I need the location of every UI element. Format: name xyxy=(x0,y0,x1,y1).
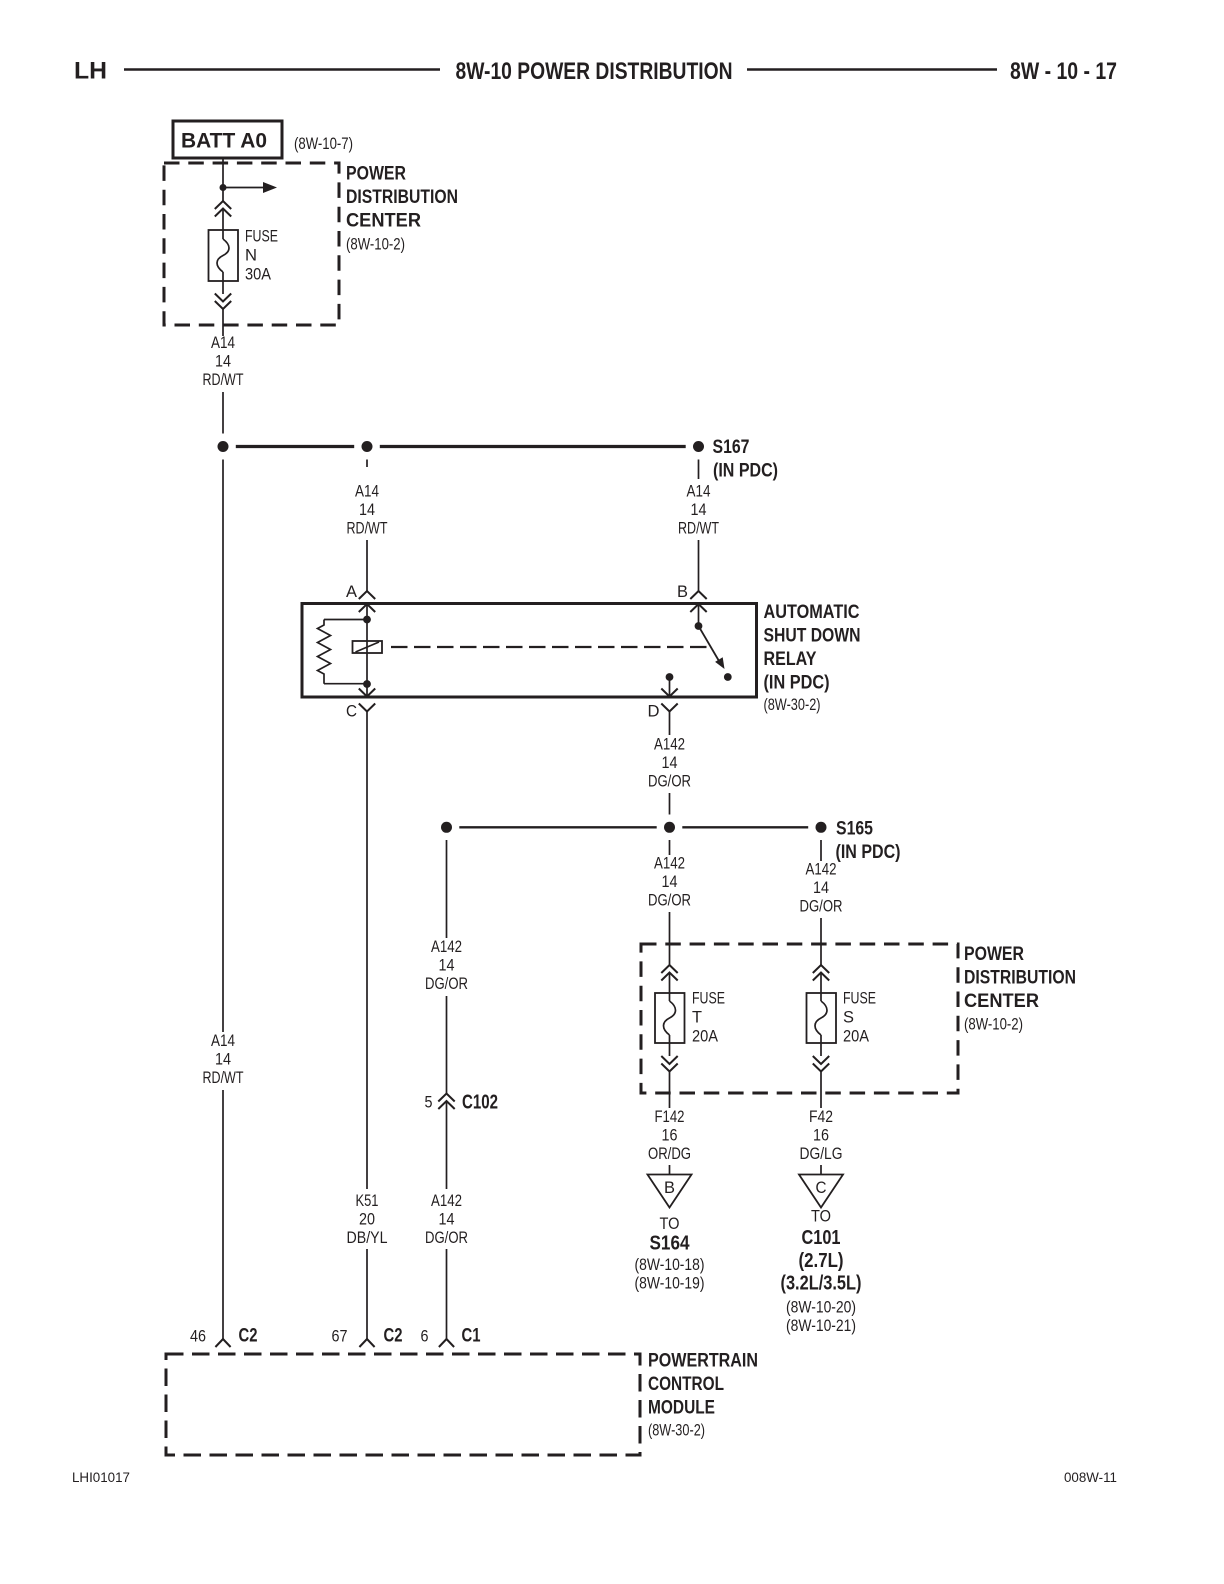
svg-text:14: 14 xyxy=(359,501,375,519)
svg-text:(8W-30-2): (8W-30-2) xyxy=(764,696,821,714)
svg-text:S167: S167 xyxy=(713,436,750,458)
pin label D xyxy=(648,703,660,721)
svg-text:TO: TO xyxy=(660,1215,680,1233)
wire stub below mid node xyxy=(366,460,368,468)
wire label K51 20 DB/YL xyxy=(347,1192,388,1247)
svg-text:AUTOMATIC: AUTOMATIC xyxy=(764,602,860,623)
svg-text:14: 14 xyxy=(813,879,829,897)
wire leaving PDC box 1 xyxy=(222,309,224,336)
pin A connector chevron xyxy=(359,591,375,599)
svg-text:(8W-30-2): (8W-30-2) xyxy=(648,1422,705,1440)
svg-text:14: 14 xyxy=(439,957,455,975)
junction node C102 branch xyxy=(441,822,452,833)
svg-text:C102: C102 xyxy=(462,1092,498,1114)
wire stub to triangle C xyxy=(820,1165,822,1174)
svg-text:14: 14 xyxy=(662,754,678,772)
svg-text:C101: C101 xyxy=(802,1227,841,1249)
power distribution center PDC box 2 (dashed) xyxy=(641,944,958,1093)
svg-text:(8W-10-2): (8W-10-2) xyxy=(346,236,405,254)
bus wire splice S165 xyxy=(459,826,808,828)
svg-text:TO: TO xyxy=(811,1208,831,1226)
pin C arrow out of relay xyxy=(359,689,375,697)
relay coil top junction xyxy=(363,616,371,624)
svg-text:POWER: POWER xyxy=(346,164,406,185)
bus wire to splice S167 xyxy=(236,445,686,448)
footer plate code LHI01017 xyxy=(72,1470,130,1485)
svg-text:C1: C1 xyxy=(462,1325,481,1347)
wire label A14 14 RD/WT (3) xyxy=(678,483,719,538)
svg-text:5: 5 xyxy=(425,1094,433,1112)
svg-text:8W-10 POWER DISTRIBUTION: 8W-10 POWER DISTRIBUTION xyxy=(456,58,733,85)
pin label B xyxy=(677,583,688,601)
header title 8W-10 POWER DISTRIBUTION xyxy=(456,58,733,85)
wire to splice S165 xyxy=(669,793,671,815)
svg-text:A142: A142 xyxy=(806,861,837,879)
pin label A xyxy=(346,583,357,601)
svg-text:20A: 20A xyxy=(843,1028,869,1046)
svg-text:(8W-10-2): (8W-10-2) xyxy=(964,1016,1023,1034)
reference (8W-10-7) xyxy=(294,135,353,153)
connector chevrons above fuse S xyxy=(813,965,829,981)
arrow branch to right xyxy=(223,182,277,193)
svg-text:FUSE: FUSE xyxy=(245,228,278,246)
svg-text:(IN PDC): (IN PDC) xyxy=(713,460,778,482)
wire from pin D xyxy=(669,718,671,735)
junction node center S165 bus xyxy=(664,822,675,833)
pin D wire and arrow xyxy=(661,677,677,697)
wire K51 to PCM pin 67 xyxy=(366,1249,368,1339)
svg-text:A142: A142 xyxy=(654,855,685,873)
footer sheet code 008W-11 xyxy=(1064,1470,1117,1485)
relay switch contact node xyxy=(724,673,732,681)
wire fuse S feed xyxy=(820,918,822,965)
svg-text:BATT A0: BATT A0 xyxy=(181,130,267,153)
fuse N 30A xyxy=(209,228,279,284)
component box BATT A0 xyxy=(173,121,282,158)
svg-text:A14: A14 xyxy=(211,334,235,352)
wire left A14 run to PCM xyxy=(222,460,224,1033)
svg-text:C2: C2 xyxy=(384,1325,403,1347)
wire stub to triangle B xyxy=(669,1165,671,1174)
power distribution center PDC box 1 (dashed) xyxy=(164,163,339,325)
header page number 8W - 10 - 17 xyxy=(1010,58,1117,85)
wire label F142 16 OR/DG xyxy=(648,1108,691,1163)
off-page connector triangle B xyxy=(648,1175,692,1208)
svg-text:(2.7L): (2.7L) xyxy=(799,1250,844,1272)
svg-text:T: T xyxy=(692,1009,702,1027)
svg-text:(8W-10-7): (8W-10-7) xyxy=(294,135,353,153)
svg-text:LHI01017: LHI01017 xyxy=(72,1470,130,1485)
junction node mid bus xyxy=(362,441,373,452)
destination TO C101 xyxy=(781,1208,862,1336)
svg-text:LH: LH xyxy=(74,58,107,85)
svg-text:B: B xyxy=(677,583,688,601)
pin label C xyxy=(346,703,357,721)
wire below fuse N xyxy=(222,272,224,294)
svg-text:F142: F142 xyxy=(655,1108,685,1126)
relay coil U1 xyxy=(353,641,383,653)
svg-text:CONTROL: CONTROL xyxy=(648,1374,724,1395)
svg-text:DG/OR: DG/OR xyxy=(800,898,843,916)
relay actuation dashed link xyxy=(391,646,708,648)
wire fuse S out of PDC xyxy=(820,1072,822,1109)
svg-text:OR/DG: OR/DG xyxy=(648,1145,691,1163)
wire fuse T out of PDC xyxy=(669,1072,671,1109)
svg-text:RD/WT: RD/WT xyxy=(203,1069,244,1087)
wire into fuse N xyxy=(222,209,224,240)
svg-text:A14: A14 xyxy=(355,483,379,501)
PCM pin 67 label C2 xyxy=(332,1325,403,1347)
junction dot in PDC xyxy=(220,184,227,191)
label POWERTRAIN CONTROL MODULE (8W-30-2) xyxy=(648,1351,758,1440)
wire below C102 xyxy=(446,1101,448,1189)
wire label A14 14 RD/WT (4) xyxy=(203,1032,244,1087)
svg-text:A142: A142 xyxy=(431,1192,462,1210)
svg-text:20A: 20A xyxy=(692,1028,718,1046)
PCM pin 6 connector xyxy=(439,1339,454,1347)
wire stub below S165 xyxy=(820,840,822,861)
svg-text:S165: S165 xyxy=(836,818,873,840)
label POWER DISTRIBUTION CENTER (8W-10-2) lower xyxy=(964,944,1076,1034)
svg-text:D: D xyxy=(648,703,660,721)
splice S167 node xyxy=(693,441,704,452)
PCM pin 67 connector xyxy=(359,1339,374,1347)
svg-text:14: 14 xyxy=(439,1211,455,1229)
svg-text:(IN PDC): (IN PDC) xyxy=(836,841,901,863)
wire A14 lower run xyxy=(222,1090,224,1339)
header rule left xyxy=(124,68,440,70)
relay box automatic shut down relay xyxy=(302,604,757,698)
wire into fuse T xyxy=(669,973,671,1002)
svg-text:A14: A14 xyxy=(687,483,711,501)
wire below fuse T xyxy=(669,1035,671,1056)
svg-text:(3.2L/3.5L): (3.2L/3.5L) xyxy=(781,1273,862,1295)
powertrain control module box (dashed) xyxy=(166,1354,640,1455)
relay coil bottom junction xyxy=(363,680,371,688)
fuse T 20A xyxy=(655,990,725,1046)
relay switch common junction xyxy=(695,622,703,630)
label S167 (IN PDC) xyxy=(713,436,779,482)
PCM pin 46 label C2 xyxy=(190,1325,258,1347)
wire label A14 14 RD/WT (1) xyxy=(203,334,244,389)
svg-text:(8W-10-18): (8W-10-18) xyxy=(635,1256,705,1274)
svg-text:46: 46 xyxy=(190,1328,206,1346)
pin A arrow into relay xyxy=(359,604,375,697)
wire BATT A0 down to junction xyxy=(222,158,224,201)
svg-text:(8W-10-21): (8W-10-21) xyxy=(786,1317,856,1335)
svg-text:(8W-10-19): (8W-10-19) xyxy=(635,1275,705,1293)
svg-text:CENTER: CENTER xyxy=(964,991,1039,1012)
wire to relay pin B xyxy=(698,540,700,591)
svg-text:RELAY: RELAY xyxy=(764,649,817,670)
wire label A142 14 DG/OR (3) xyxy=(800,861,843,916)
svg-text:67: 67 xyxy=(332,1328,348,1346)
splice S165 node xyxy=(816,822,827,833)
svg-text:14: 14 xyxy=(215,353,231,371)
pin B arrow into relay xyxy=(690,604,706,626)
relay resistor (parallel) xyxy=(318,620,368,684)
junction node at A14 column xyxy=(218,441,229,452)
svg-text:DG/OR: DG/OR xyxy=(425,975,468,993)
svg-text:RD/WT: RD/WT xyxy=(203,371,244,389)
svg-text:S: S xyxy=(843,1009,854,1027)
relay switch armature xyxy=(699,626,725,669)
PCM pin 46 connector xyxy=(215,1339,230,1347)
relay pin D junction xyxy=(666,673,674,681)
svg-text:C: C xyxy=(816,1179,827,1197)
svg-text:14: 14 xyxy=(662,873,678,891)
wire from relay pin C xyxy=(366,718,368,1189)
svg-text:DG/LG: DG/LG xyxy=(800,1145,843,1163)
svg-text:14: 14 xyxy=(691,501,707,519)
label AUTOMATIC SHUT DOWN RELAY (IN PDC) (8W-30-2) xyxy=(764,602,861,714)
svg-text:CENTER: CENTER xyxy=(346,211,421,232)
svg-text:6: 6 xyxy=(421,1328,429,1346)
wire to relay pin A xyxy=(366,540,368,591)
svg-text:(8W-10-20): (8W-10-20) xyxy=(786,1299,856,1317)
svg-text:14: 14 xyxy=(215,1051,231,1069)
wire stub below S167 xyxy=(698,460,700,480)
svg-text:16: 16 xyxy=(662,1127,678,1145)
label S165 (IN PDC) xyxy=(836,818,901,864)
svg-text:A142: A142 xyxy=(431,938,462,956)
svg-text:S164: S164 xyxy=(650,1233,691,1255)
svg-text:DISTRIBUTION: DISTRIBUTION xyxy=(964,968,1076,989)
wire to connector C102 xyxy=(446,996,448,1094)
destination TO S164 xyxy=(635,1215,705,1293)
wire label A142 14 DG/OR (2) xyxy=(648,855,691,910)
connector chevrons below fuse T xyxy=(661,1056,677,1072)
pin D connector Y xyxy=(661,704,677,719)
fuse S 20A xyxy=(807,990,877,1046)
wire label A142 14 DG/OR (4) xyxy=(425,938,468,993)
svg-text:8W - 10 - 17: 8W - 10 - 17 xyxy=(1010,58,1117,85)
svg-text:008W-11: 008W-11 xyxy=(1064,1470,1117,1485)
svg-text:K51: K51 xyxy=(356,1192,379,1210)
pin B connector chevron xyxy=(690,591,706,599)
connector chevrons below fuse N xyxy=(215,294,231,310)
svg-text:DG/OR: DG/OR xyxy=(648,773,691,791)
svg-text:C: C xyxy=(346,703,357,721)
svg-text:DB/YL: DB/YL xyxy=(347,1229,388,1247)
off-page connector triangle C xyxy=(799,1175,843,1208)
svg-text:DISTRIBUTION: DISTRIBUTION xyxy=(346,187,458,208)
header rule right xyxy=(747,68,997,70)
connector chevrons above fuse T xyxy=(661,965,677,981)
connector chevrons above fuse N xyxy=(215,201,231,217)
svg-text:(IN PDC): (IN PDC) xyxy=(764,673,830,694)
svg-text:16: 16 xyxy=(813,1127,829,1145)
svg-text:C2: C2 xyxy=(239,1325,258,1347)
svg-text:20: 20 xyxy=(359,1211,375,1229)
svg-text:RD/WT: RD/WT xyxy=(347,520,388,538)
svg-text:DG/OR: DG/OR xyxy=(648,892,691,910)
svg-text:B: B xyxy=(664,1179,675,1197)
wire label A142 14 DG/OR (1) xyxy=(648,736,691,791)
header label LH xyxy=(74,58,107,85)
svg-text:FUSE: FUSE xyxy=(843,990,876,1008)
wire stub below center node xyxy=(669,840,671,855)
svg-text:A14: A14 xyxy=(211,1032,235,1050)
wire into fuse S xyxy=(820,973,822,1002)
svg-text:MODULE: MODULE xyxy=(648,1398,715,1419)
svg-text:FUSE: FUSE xyxy=(692,990,725,1008)
svg-text:RD/WT: RD/WT xyxy=(678,520,719,538)
wire fuse T feed xyxy=(669,912,671,965)
connector chevrons below fuse S xyxy=(813,1056,829,1072)
label POWER DISTRIBUTION CENTER (8W-10-2) xyxy=(346,164,458,254)
wire A14 to bus xyxy=(222,392,224,434)
svg-text:N: N xyxy=(245,247,257,265)
svg-text:DG/OR: DG/OR xyxy=(425,1229,468,1247)
svg-text:POWER: POWER xyxy=(964,944,1024,965)
pin C connector Y xyxy=(359,704,375,719)
wire to PCM pin 6 xyxy=(446,1249,448,1339)
wire label A142 14 DG/OR (5) xyxy=(425,1192,468,1247)
svg-text:A142: A142 xyxy=(654,736,685,754)
wire below fuse S xyxy=(820,1035,822,1056)
wire label A14 14 RD/WT (2) xyxy=(347,483,388,538)
PCM pin 6 label C1 xyxy=(421,1325,481,1347)
svg-text:SHUT DOWN: SHUT DOWN xyxy=(764,626,861,647)
svg-text:30A: 30A xyxy=(245,266,271,284)
svg-text:A: A xyxy=(346,583,357,601)
in-line connector C102 pin 5 xyxy=(425,1092,499,1114)
svg-text:POWERTRAIN: POWERTRAIN xyxy=(648,1351,758,1372)
wire branch down from S165 bus xyxy=(446,840,448,938)
wire label F42 16 DG/LG xyxy=(800,1108,843,1163)
svg-text:F42: F42 xyxy=(809,1108,833,1126)
